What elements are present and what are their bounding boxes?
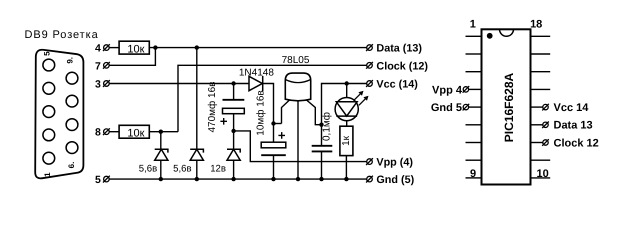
svg-text:Vcc 14: Vcc 14	[554, 102, 590, 114]
svg-text:5: 5	[95, 174, 101, 186]
capacitor 470mf	[223, 99, 245, 101]
node Data zener tap	[195, 45, 199, 49]
wire Clock row	[178, 65, 367, 131]
svg-text:1: 1	[470, 19, 476, 31]
terminal Vpp	[367, 159, 373, 165]
terminal Data	[367, 45, 373, 51]
IC PIC16F628A body	[482, 29, 531, 184]
resistor 1k	[340, 126, 353, 155]
svg-text:Data (13): Data (13)	[376, 43, 422, 55]
capacitor 10mf	[273, 124, 275, 143]
node diode out / 10mf	[271, 121, 275, 125]
connector hole pin9	[66, 72, 78, 84]
svg-text:10к: 10к	[127, 43, 144, 55]
wire Vpp row	[234, 131, 367, 162]
capacitor 10mf plus sign	[278, 132, 285, 139]
connector hole pin8	[66, 95, 78, 107]
svg-text:1к: 1к	[341, 135, 352, 146]
IC pin 16 stub	[531, 71, 551, 73]
IC pin 6 stub	[466, 124, 482, 126]
regulator right leg	[307, 100, 322, 125]
connector hole pin7	[66, 119, 78, 131]
resistor 10k lower	[119, 125, 149, 138]
terminal Gnd	[367, 176, 373, 182]
IC pin 12 terminal Clock	[531, 142, 543, 144]
node after 10k	[153, 45, 157, 49]
node gnd zener2	[195, 177, 199, 181]
LED arrows	[354, 91, 369, 106]
terminal Vcc	[367, 81, 373, 87]
connector hole pin3	[43, 106, 55, 118]
connector hole pin2	[43, 129, 55, 141]
svg-text:78L05: 78L05	[282, 55, 310, 66]
svg-text:Vpp 4: Vpp 4	[432, 84, 463, 96]
node gnd zener1	[159, 177, 163, 181]
svg-text:5: 5	[43, 51, 52, 56]
IC pin 7 stub	[466, 142, 482, 144]
svg-text:Gnd 5: Gnd 5	[431, 102, 462, 114]
svg-text:10мф 16в: 10мф 16в	[255, 90, 266, 135]
IC notch	[500, 29, 514, 36]
IC pin 3 stub	[466, 71, 482, 73]
regulator 78L05 body	[285, 73, 310, 101]
wire pin3 row	[109, 83, 249, 85]
svg-text:10: 10	[536, 168, 548, 180]
regulator middle leg (gnd)	[297, 101, 299, 180]
svg-text:18: 18	[530, 19, 542, 31]
wire pin8 to resistor	[109, 131, 119, 133]
connector hole pin1	[43, 152, 55, 164]
connector hole pin5	[43, 59, 55, 71]
wire pin8 row	[149, 131, 178, 133]
connector DB9 shell	[35, 50, 83, 179]
zener D2 5.6v	[190, 149, 203, 179]
svg-text:PIC16F628A: PIC16F628A	[502, 72, 516, 142]
svg-text:5,6в: 5,6в	[139, 164, 157, 175]
DB9 pin 5 terminal	[104, 176, 110, 182]
svg-text:8: 8	[95, 127, 101, 139]
IC pin 11 stub	[531, 159, 551, 161]
IC pin 2 stub	[466, 53, 482, 55]
svg-text:9.: 9.	[66, 57, 75, 64]
svg-text:Data 13: Data 13	[554, 120, 593, 132]
svg-text:Clock (12): Clock (12)	[376, 60, 428, 72]
svg-text:1N4148: 1N4148	[239, 67, 274, 78]
LED	[346, 84, 348, 98]
DB9 pin 7 terminal	[104, 63, 110, 69]
svg-text:Vcc (14): Vcc (14)	[376, 79, 418, 91]
regulator left leg	[282, 100, 290, 124]
svg-text:1: 1	[43, 172, 52, 177]
node pin3 cap tap	[231, 81, 235, 85]
svg-text:5,6в: 5,6в	[173, 164, 191, 175]
DB9 pin 8 terminal	[104, 129, 110, 135]
node Vpp tap	[231, 129, 235, 133]
node gnd 0.1mf	[319, 177, 323, 181]
IC pin 10 stub	[531, 177, 551, 179]
node gnd 1k	[344, 177, 348, 181]
node gnd regulator	[296, 177, 300, 181]
IC pin 18 stub	[531, 35, 551, 37]
node Vcc LED tap	[345, 81, 349, 85]
svg-text:DB9 Розетка: DB9 Розетка	[25, 29, 99, 41]
DB9 pin 3 terminal	[104, 81, 110, 87]
diode 1N4148	[249, 76, 262, 90]
zener D1 5.6v	[155, 149, 168, 179]
capacitor 470mf vertical lead	[233, 84, 235, 100]
svg-text:Vpp (4): Vpp (4)	[376, 157, 413, 169]
resistor 10k upper	[119, 41, 149, 54]
connector hole pin6	[66, 142, 78, 154]
svg-text:Clock 12: Clock 12	[554, 137, 599, 149]
wire Gnd row	[109, 178, 367, 180]
terminal Clock	[367, 63, 373, 69]
node pin8 zener tap	[159, 130, 163, 134]
node gnd 10mf	[271, 177, 275, 181]
svg-text:3: 3	[95, 79, 101, 91]
wire pin7 up to Data node	[109, 48, 155, 66]
capacitor 0.1mf	[321, 125, 323, 146]
svg-text:12в: 12в	[210, 164, 226, 175]
IC pin 13 terminal Data	[531, 124, 543, 126]
wire zener1 vertical	[160, 132, 162, 150]
zener D3 12v	[227, 149, 240, 179]
node gnd zener3	[231, 177, 235, 181]
IC pin 9 stub	[466, 177, 482, 179]
svg-text:4: 4	[95, 43, 101, 55]
wire diode out	[263, 84, 274, 124]
IC pin 15 stub	[531, 88, 551, 90]
capacitor 470mf plus sign	[220, 118, 227, 125]
node 0.1mf	[319, 123, 323, 127]
wire pin4 to resistor	[109, 47, 119, 49]
svg-text:0,1мф: 0,1мф	[321, 112, 332, 141]
IC pin 1 stub	[466, 35, 482, 37]
svg-text:9: 9	[470, 168, 476, 180]
IC pin 14 terminal Vcc	[531, 106, 543, 108]
wire Data row	[149, 47, 366, 49]
wire zener2 vertical	[196, 48, 198, 150]
IC pin 8 stub	[466, 159, 482, 161]
wire zener3 vertical	[233, 131, 235, 149]
wire to regulator input leg	[274, 123, 282, 125]
svg-text:10к: 10к	[127, 127, 144, 139]
svg-text:6.: 6.	[67, 162, 76, 169]
IC pin1 dot	[487, 33, 493, 39]
svg-text:7: 7	[95, 60, 101, 72]
svg-text:Gnd (5): Gnd (5)	[376, 174, 414, 186]
IC pin 17 stub	[531, 53, 551, 55]
connector hole pin4	[43, 82, 55, 94]
svg-text:470мф 16в: 470мф 16в	[207, 81, 218, 132]
wire Vcc riser	[322, 84, 367, 125]
DB9 pin 4 terminal	[104, 45, 110, 51]
